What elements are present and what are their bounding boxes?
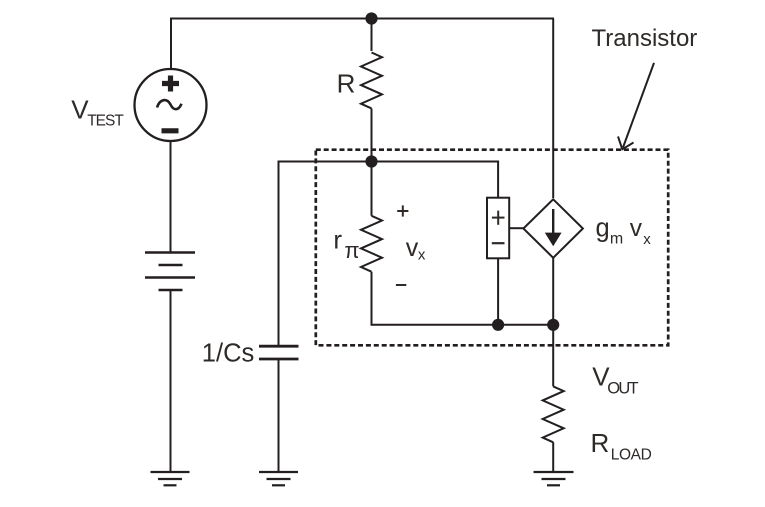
vx sense box (487, 198, 509, 259)
node current source bottom junction (547, 319, 559, 331)
ground capacitor (259, 472, 298, 485)
wire top rail (171, 19, 554, 70)
wire source to battery (170, 141, 172, 252)
svg-text:m: m (610, 231, 623, 248)
svg-text:R: R (591, 428, 610, 458)
svg-text:OUT: OUT (607, 380, 638, 398)
minus mark in source (162, 128, 179, 133)
label plus in vx box (492, 211, 505, 225)
arrow inside current source (545, 209, 562, 246)
svg-text:LOAD: LOAD (611, 447, 652, 464)
ground V_TEST (151, 472, 190, 485)
voltage source V_TEST circle (135, 69, 207, 141)
wire diamond bottom to output (552, 258, 554, 387)
svg-text:Transistor: Transistor (592, 25, 698, 52)
svg-text:x: x (418, 246, 426, 263)
svg-text:g: g (596, 215, 610, 243)
node vx box bottom junction (492, 319, 504, 331)
transistor pointer arrow (618, 63, 654, 149)
svg-text:π: π (344, 238, 359, 263)
sine mark in source (157, 100, 182, 109)
battery (145, 253, 195, 291)
label minus in vx box (492, 242, 505, 244)
wire vx box bottom stub (497, 258, 499, 325)
ground R_LOAD (534, 472, 574, 485)
svg-text:v: v (630, 215, 643, 242)
wire node B right to vx box (372, 162, 499, 198)
node B junction (365, 155, 377, 167)
wire capacitor to ground (278, 359, 280, 472)
wire R bottom stub (371, 108, 373, 161)
wire node B left to capacitor (279, 162, 372, 346)
plus mark in source (162, 76, 179, 92)
dependent current source diamond (523, 199, 583, 257)
svg-text:r: r (333, 225, 342, 255)
wire r_pi top stub (371, 162, 373, 216)
wire r_pi bottom to common rail (372, 272, 554, 325)
svg-text:TEST: TEST (87, 113, 124, 130)
label plus of v_x (397, 205, 408, 216)
transistor dashed box (316, 150, 668, 346)
node top junction (365, 12, 377, 24)
svg-text:1/Cs: 1/Cs (202, 340, 254, 368)
wire R_LOAD to ground (552, 442, 554, 472)
resistor R_LOAD (543, 386, 564, 442)
wire battery to ground (170, 290, 172, 472)
svg-text:R: R (337, 69, 356, 99)
svg-text:v: v (406, 234, 419, 262)
label minus of v_x (396, 284, 406, 286)
capacitor 1/Cs (259, 346, 299, 359)
resistor r_pi (361, 216, 382, 272)
resistor R (361, 53, 382, 109)
svg-text:x: x (643, 231, 651, 248)
wire vx box to diamond (509, 227, 524, 229)
wire right drop to current source (552, 19, 554, 199)
wire R top stub (371, 19, 373, 52)
